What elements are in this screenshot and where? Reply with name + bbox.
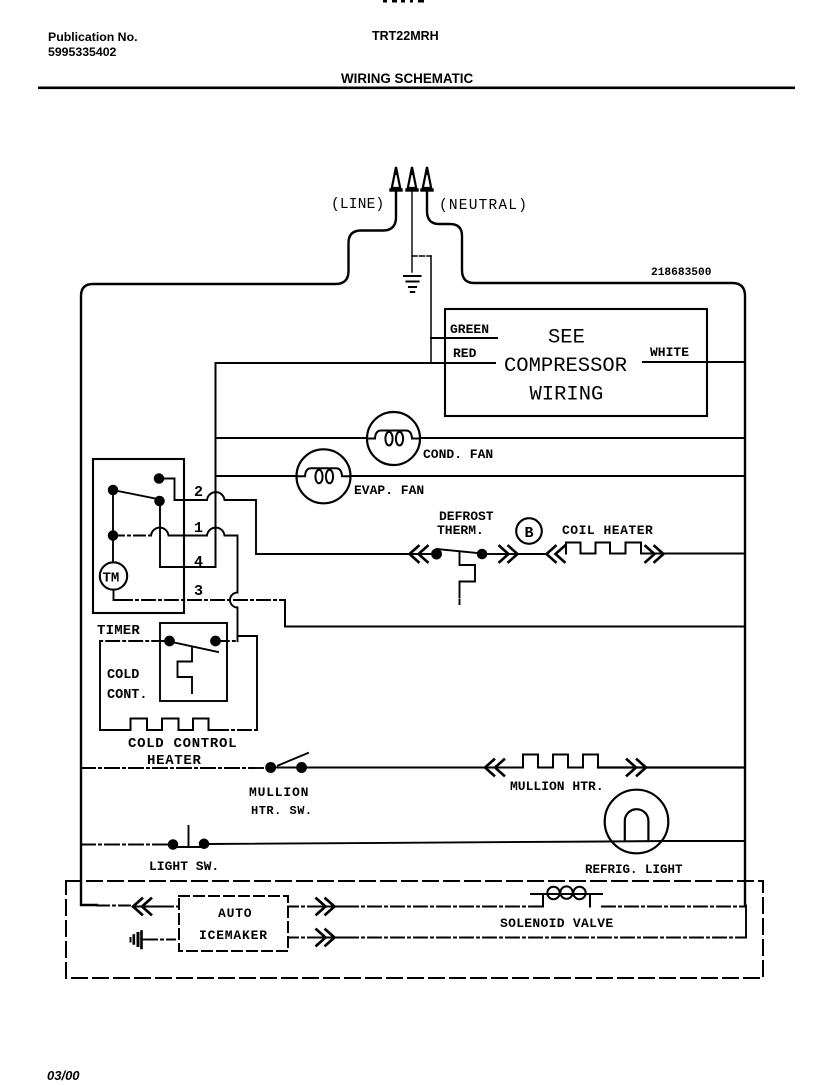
- timer box: [93, 459, 184, 613]
- svg-text:(LINE): (LINE): [331, 197, 384, 213]
- cold control contact left: [165, 637, 174, 646]
- wire RED terminal to left bus: [216, 362, 496, 364]
- light switch contact left: [169, 840, 177, 848]
- wire WHITE terminal to right border: [643, 361, 745, 363]
- svg-text:CONT.: CONT.: [107, 688, 148, 703]
- svg-text:218683500: 218683500: [651, 267, 712, 279]
- svg-text:HEATER: HEATER: [147, 753, 202, 769]
- svg-text:3: 3: [194, 583, 203, 600]
- auto icemaker box: [179, 896, 288, 951]
- timer left vertical (common to TM): [112, 490, 114, 563]
- wire between and after contacts: [270, 767, 485, 769]
- timer internal vertical to pin 4: [159, 501, 161, 567]
- wire icemaker ground lead: [149, 939, 179, 941]
- resistor mullion heater: [523, 755, 625, 768]
- defrost thermostat contact right: [478, 550, 486, 558]
- wire icemaker feed from left border: [97, 905, 130, 907]
- ground symbol (plug earth): [404, 276, 421, 292]
- svg-text:B: B: [525, 525, 534, 542]
- wire to right border: [641, 553, 745, 555]
- light row wire left: [81, 844, 169, 846]
- connector female << (icemaker input): [133, 899, 151, 915]
- compressor box SEE COMPRESSOR WIRING: [445, 309, 707, 416]
- svg-text:SOLENOID VALVE: SOLENOID VALVE: [500, 916, 613, 931]
- solenoid valve coil: [531, 894, 602, 907]
- connector male >> (coil heater right): [646, 546, 664, 562]
- svg-text:(NEUTRAL): (NEUTRAL): [439, 198, 528, 214]
- mullion switch blade: [278, 753, 308, 766]
- svg-text:TIMER: TIMER: [97, 623, 140, 639]
- svg-text:COND. FAN: COND. FAN: [423, 447, 493, 462]
- svg-text:DEFROST: DEFROST: [439, 509, 494, 524]
- icemaker dashed enclosure: [66, 881, 763, 978]
- resistor coil heater: [566, 543, 644, 554]
- svg-text:4: 4: [194, 554, 203, 571]
- timer motor TM: [100, 562, 127, 589]
- cold control contact right: [211, 637, 220, 646]
- svg-text:ICEMAKER: ICEMAKER: [199, 928, 268, 943]
- svg-text:HTR. SW.: HTR. SW.: [251, 804, 313, 818]
- defrost row wire: [256, 553, 409, 555]
- svg-text:WIRING: WIRING: [530, 384, 604, 407]
- wire cold control left contact to heater: [100, 640, 165, 642]
- wire cold control right contact: [220, 640, 238, 642]
- defrost thermostat contact left: [432, 550, 441, 559]
- svg-text:COLD: COLD: [107, 668, 139, 683]
- svg-text:COLD CONTROL: COLD CONTROL: [128, 736, 237, 752]
- mullion switch contact right: [297, 763, 306, 772]
- mullion switch contact left: [266, 763, 275, 772]
- svg-text:MULLION: MULLION: [249, 785, 309, 800]
- wire condenser fan row: [216, 437, 746, 439]
- svg-text:SEE: SEE: [548, 327, 585, 350]
- svg-text:GREEN: GREEN: [450, 322, 489, 337]
- resistor cold control heater: [131, 719, 216, 731]
- timer junction pin1: [109, 531, 117, 539]
- light switch bar and plunger: [173, 826, 204, 847]
- mullion row wire left: [81, 767, 266, 769]
- top edge artifact mark: [383, 0, 387, 3]
- wire pin 1 dashes, hops over internal vertical and bus: [113, 535, 151, 537]
- svg-text:1: 1: [194, 520, 203, 537]
- wire light row to right border: [208, 841, 745, 844]
- svg-text:COMPRESSOR: COMPRESSOR: [504, 355, 627, 378]
- connector female << (coil heater left): [547, 546, 565, 562]
- wire icemaker output 2: [288, 937, 312, 939]
- svg-text:AUTO: AUTO: [218, 906, 252, 921]
- defrost capillary zigzag: [460, 552, 476, 605]
- wire pin 3 from TM to right border: [114, 590, 120, 600]
- svg-text:EVAP. FAN: EVAP. FAN: [354, 483, 424, 498]
- plug prong LINE (arrowhead): [391, 167, 401, 191]
- svg-text:RED: RED: [453, 346, 477, 361]
- light switch contact right: [200, 840, 208, 848]
- wire NEUTRAL prong to right border, down right side: [427, 192, 745, 905]
- motor M2 EVAP. FAN: [297, 449, 351, 503]
- node B circled: [516, 518, 542, 544]
- wire green tap from ground drop: [412, 255, 431, 257]
- svg-text:5995335402: 5995335402: [48, 45, 117, 59]
- wire GREEN terminal: [431, 337, 497, 339]
- cold control capillary: [178, 648, 193, 693]
- header rule: [38, 87, 795, 90]
- wire pin 2 with hop over bus, down to defrost row: [175, 492, 257, 554]
- cold control box: [160, 623, 227, 701]
- defrost thermostat blade: [437, 549, 483, 554]
- svg-text:COIL HEATER: COIL HEATER: [562, 523, 653, 538]
- connector male >> (output 1): [317, 899, 335, 915]
- svg-text:THERM.: THERM.: [437, 523, 484, 538]
- svg-text:MULLION HTR.: MULLION HTR.: [510, 779, 604, 794]
- cold control blade: [172, 642, 218, 652]
- wire pin 4 to bus: [160, 566, 216, 568]
- wire icemaker output 1: [288, 906, 312, 908]
- connector female << (mullion heater left): [485, 760, 504, 776]
- svg-text:WIRING SCHEMATIC: WIRING SCHEMATIC: [341, 71, 473, 86]
- connector male >> (defrost right): [500, 546, 518, 562]
- svg-text:TM: TM: [103, 571, 120, 587]
- svg-text:2: 2: [194, 484, 203, 501]
- plug prong ground (arrowhead): [407, 167, 417, 191]
- ground symbol (icemaker): [140, 932, 143, 949]
- timer common contact: [109, 486, 117, 494]
- svg-text:Publication No.: Publication No.: [48, 30, 138, 44]
- wire ground prong drop: [411, 192, 413, 272]
- svg-text:03/00: 03/00: [47, 1068, 80, 1083]
- timer contact lower: [155, 497, 163, 505]
- timer switch blade: [113, 490, 160, 500]
- connector female << (defrost left): [410, 546, 428, 562]
- plug prong NEUTRAL (arrowhead): [422, 167, 432, 191]
- svg-text:TRT22MRH: TRT22MRH: [372, 29, 439, 43]
- wire left bus (red feed): [215, 363, 217, 567]
- connector male >> (output 2): [317, 930, 335, 946]
- lamp REFRIG. LIGHT filament: [625, 809, 649, 841]
- wire LINE prong to left border, down left side to icemaker row: [81, 192, 396, 905]
- timer contact upper (to pin 2): [155, 474, 163, 482]
- wire solenoid to right border junction: [602, 906, 746, 908]
- svg-text:REFRIG. LIGHT: REFRIG. LIGHT: [585, 863, 683, 877]
- wire pin 1 hop around pin3 wire, down to cold control: [230, 593, 237, 642]
- svg-text:WHITE: WHITE: [650, 345, 689, 360]
- lamp REFRIG. LIGHT bulb: [605, 790, 669, 854]
- wire evaporator fan row: [216, 475, 746, 477]
- wire to right border: [598, 766, 745, 768]
- motor M1 COND. FAN: [367, 412, 420, 465]
- svg-text:LIGHT SW.: LIGHT SW.: [149, 859, 219, 874]
- wire branch to cold control heater right side: [238, 636, 258, 730]
- connector male >> (mullion heater right): [627, 760, 646, 776]
